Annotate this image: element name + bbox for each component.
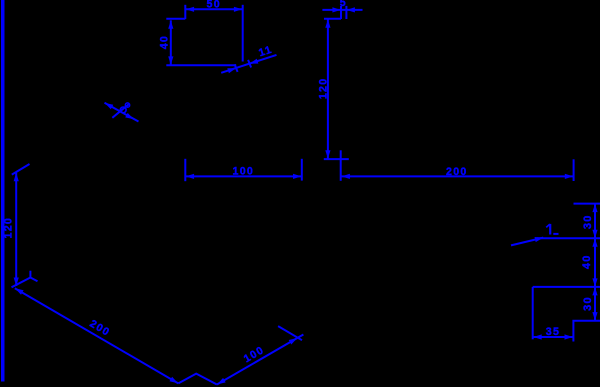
dim 100: right extension line — [301, 159, 303, 181]
dim 40: dimension line — [170, 20, 172, 65]
dim 120 middle: bottom arrow — [325, 150, 330, 158]
dim 100: dimension line — [186, 175, 302, 177]
svg-text:200: 200 — [446, 166, 468, 178]
leader text 1 flag — [546, 224, 550, 227]
dim 200: dimension line — [341, 175, 573, 177]
dim 200: right extension line — [573, 159, 575, 181]
dim 40: bottom arrow — [168, 56, 173, 64]
svg-text:50: 50 — [207, 0, 221, 11]
dim 11: left outside arrow — [227, 68, 236, 73]
dim 200 aligned: end arrow — [170, 377, 179, 384]
slope symbol: upper-left arrowhead — [105, 103, 114, 109]
slope symbol: percent ring 2 — [125, 103, 129, 107]
dim 200: right arrow — [565, 174, 573, 179]
vertex tick: right oblique — [30, 278, 37, 282]
dim 120 middle: top arrow — [325, 19, 330, 27]
right side: extension line 2 — [537, 237, 600, 239]
dim 120 left: dimension line — [15, 173, 17, 286]
dim 100 aligned: dimension line — [217, 338, 298, 385]
dim 11: dimension line — [221, 55, 276, 73]
bottom line of top-left figure — [166, 64, 236, 66]
dim 5: left extension line — [340, 6, 342, 19]
vertex tick: vertical stub — [29, 271, 31, 278]
dim 100 aligned: overshoot — [298, 335, 304, 338]
dim 5: dimension line — [322, 9, 362, 11]
dim 200 aligned: start arrow — [15, 288, 24, 295]
dim 100: right arrow — [293, 174, 301, 179]
svg-text:120: 120 — [3, 217, 15, 239]
dim 30 bottom: bottom arrow — [592, 312, 597, 320]
svg-text:30: 30 — [582, 296, 594, 311]
svg-text:100: 100 — [233, 165, 255, 177]
svg-text:30: 30 — [582, 214, 594, 229]
dim 35: left arrow — [533, 334, 541, 339]
svg-text:40: 40 — [581, 254, 593, 269]
dim 100: left arrow — [186, 174, 194, 179]
dim 100: left extension line — [184, 159, 186, 181]
dim 30 top: bottom arrow — [592, 230, 597, 238]
dim 50: left extension line — [184, 5, 186, 19]
slope symbol: percent slash — [112, 104, 129, 118]
dim 35: left extension line — [532, 287, 534, 339]
dim 200: left arrow — [342, 174, 350, 179]
dim 35: right arrow — [565, 334, 573, 339]
leader underline dash — [553, 233, 558, 235]
dim 40 right: bottom arrow — [592, 278, 597, 286]
dim 30 top: top arrow — [592, 204, 597, 212]
dim 50: right arrow — [234, 7, 242, 12]
dim 120 left: top arrow — [14, 173, 19, 181]
center cross: horizontal — [324, 158, 349, 160]
oblique extension zigzag between aligned dims — [178, 374, 217, 385]
dim 11: right outside arrow — [250, 59, 259, 64]
svg-text:5: 5 — [340, 0, 347, 9]
dim 200 aligned: dimension line — [15, 288, 179, 383]
slope symbol: lower-right arrowhead — [125, 113, 134, 119]
svg-text:40: 40 — [159, 35, 171, 49]
dim 11: right tick — [248, 60, 251, 68]
svg-text:120: 120 — [318, 78, 330, 100]
right side: extension line 4 with step — [573, 321, 600, 342]
dim 100 aligned: right oblique extension — [278, 326, 302, 340]
dim 40 right: top arrow — [592, 238, 597, 246]
corner line top-left — [166, 18, 185, 20]
right side: vertical dimension line — [594, 204, 596, 321]
dim 5: right extension line — [345, 6, 347, 19]
dim 50: left arrow — [186, 7, 194, 12]
dim 120 middle: dimension line — [327, 19, 329, 158]
clipped vertical edge line at left — [1, 0, 5, 382]
leader text 1 (drawn) — [549, 224, 551, 235]
dim 50: right extension line — [242, 5, 244, 62]
right side: extension line 1 — [574, 203, 600, 205]
svg-text:200: 200 — [87, 318, 112, 339]
svg-text:35: 35 — [546, 326, 560, 338]
dim 5: right outside arrow — [347, 7, 355, 12]
leader line to extension line 2 — [511, 238, 543, 246]
dim 5: left outside arrow — [332, 7, 340, 12]
dim 120 left: top oblique extension — [12, 164, 30, 175]
dim 100 aligned: start arrow — [217, 378, 226, 385]
slope symbol: main line — [105, 103, 139, 122]
right side: extension line 3 — [533, 286, 600, 288]
corner line top-middle — [324, 18, 341, 20]
dim 40: top arrow — [168, 20, 173, 28]
slope symbol: percent ring 1 — [120, 107, 126, 113]
center cross: vertical — [340, 150, 342, 181]
dim 35: dimension line — [533, 336, 574, 338]
leader arrowhead — [535, 237, 544, 242]
dim 120 left: bottom arrow — [14, 278, 19, 286]
dim 11: left tick — [235, 64, 238, 72]
vertex tick: left oblique — [12, 278, 31, 288]
dim 100 aligned: end arrow — [289, 338, 298, 345]
dim 30 bottom: top arrow — [592, 287, 597, 295]
dim 50: dimension line — [186, 8, 243, 10]
